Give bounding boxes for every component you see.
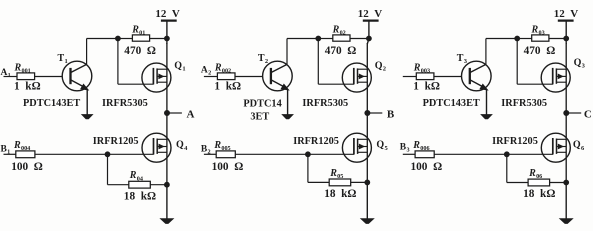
node B2 input terminal (201, 145, 211, 156)
label PDTC143ET part number (243, 99, 281, 123)
wire node A to drain of Q4 and source down (166, 113, 168, 185)
P-MOSFET Q3 (IRFR5305) (541, 63, 570, 92)
ground (source of Q4) (161, 185, 173, 224)
svg-text:T2: T2 (258, 53, 268, 65)
label 12 V (358, 8, 383, 20)
label Q6 (573, 140, 585, 152)
resistor R06 18 kOhm (528, 179, 550, 186)
svg-text:Q4: Q4 (176, 140, 188, 152)
junction node under 12 V supply (367, 36, 372, 41)
svg-text:T1: T1 (58, 53, 68, 65)
junction node at R03 left (515, 36, 520, 41)
wire R06 to source of Q6 (550, 182, 567, 184)
svg-text:IRFR1205: IRFR1205 (492, 136, 538, 147)
label R06 (528, 168, 542, 180)
svg-text:470 Ω: 470 Ω (524, 45, 556, 57)
transistor T1 (PDTC143ET) (62, 61, 92, 91)
label Q3 (574, 58, 586, 70)
value 470 Ohm for R03 (524, 45, 556, 57)
resistor R03 470 Ohm (517, 35, 566, 41)
wire R04 to source of Q4 (150, 184, 167, 186)
svg-text:B: B (387, 108, 395, 120)
svg-text:A2: A2 (201, 66, 211, 77)
wire node B to drain of Q5 and source down (366, 113, 368, 182)
wire node A stub (167, 112, 182, 114)
wire R003 to base of T3 (434, 76, 462, 78)
wire node B stub (367, 112, 382, 114)
resistor R001 1 kOhm (17, 73, 35, 80)
svg-text:Q6: Q6 (573, 140, 585, 152)
value 100 Ohm for R004 (11, 161, 43, 173)
svg-text:IRFR5305: IRFR5305 (501, 98, 547, 109)
svg-text:12 V: 12 V (358, 8, 383, 20)
wire drain of Q1 to node A (166, 39, 168, 114)
junction node source of Q5 (365, 180, 370, 185)
svg-text:Q1: Q1 (174, 60, 185, 72)
label R006 (412, 140, 429, 152)
svg-text:R01: R01 (131, 24, 145, 36)
N-MOSFET Q4 (IRFR1205) (142, 133, 171, 162)
junction node A (165, 111, 170, 116)
label T1 (58, 53, 68, 65)
svg-text:IRFR5305: IRFR5305 (102, 98, 148, 109)
label IRFR1205 part number (93, 136, 139, 147)
svg-text:470 Ω: 470 Ω (124, 45, 156, 57)
junction node source of Q4 (165, 182, 170, 187)
svg-text:100 Ω: 100 Ω (411, 161, 443, 173)
junction node C (564, 111, 569, 116)
value 18 kOhm for R06 (523, 188, 555, 200)
label 12 V (554, 8, 579, 20)
wire R002 to base of T2 (235, 76, 263, 78)
value 470 Ohm for R02 (325, 45, 357, 57)
svg-text:C: C (584, 108, 592, 120)
svg-text:R005: R005 (213, 140, 230, 152)
wire R004 to gate of Q4 (35, 153, 154, 155)
label node C (584, 108, 592, 120)
ground (emitter of T3) (481, 90, 491, 119)
label IRFR1205 part number (492, 136, 538, 147)
wire collector of T2 up to top node (287, 39, 318, 65)
resistor R005 100 Ohm (216, 151, 235, 158)
label PDTC143ET part number (23, 98, 80, 109)
svg-text:R06: R06 (528, 168, 542, 180)
svg-text:R03: R03 (531, 24, 545, 36)
wire input B2 to R005 (204, 153, 216, 155)
node B1 input terminal (1, 145, 11, 156)
junction node under 12 V supply (165, 36, 170, 41)
junction node under 12 V supply (564, 36, 569, 41)
label 12 V (155, 8, 180, 20)
wire collector of T3 up to top node (486, 39, 517, 65)
wire R006 to gate of Q6 (434, 153, 553, 155)
svg-text:A: A (187, 108, 195, 120)
resistor R01 470 Ohm (118, 35, 167, 41)
svg-text:R02: R02 (332, 24, 346, 36)
supply 12 V terminal (363, 21, 379, 39)
label R002 (214, 62, 231, 74)
value 18 kOhm for R04 (124, 190, 156, 202)
svg-text:R04: R04 (129, 170, 143, 182)
svg-text:IRFR1205: IRFR1205 (93, 136, 139, 147)
ground (emitter of T2) (282, 90, 292, 119)
junction node source of Q6 (564, 180, 569, 185)
svg-text:IRFR1205: IRFR1205 (293, 136, 339, 147)
junction node at R02 left (316, 36, 321, 41)
svg-text:B3: B3 (400, 143, 410, 154)
label R005 (213, 140, 230, 152)
wire gate junction down to R05 (308, 154, 329, 182)
wire input B1 to R004 (4, 153, 16, 155)
svg-text:R003: R003 (413, 62, 430, 74)
value 1 kOhm for R002 (214, 80, 241, 92)
resistor R003 1 kOhm (416, 73, 434, 80)
svg-text:PDTC143ET: PDTC143ET (423, 98, 480, 109)
svg-text:1 kΩ: 1 kΩ (413, 80, 440, 92)
svg-text:18 kΩ: 18 kΩ (324, 188, 356, 200)
value 1 kOhm for R001 (14, 80, 41, 92)
wire input B3 to R006 (403, 153, 415, 155)
resistor R05 18 kOhm (329, 179, 351, 186)
label R001 (14, 62, 31, 74)
wire R001 to base of T1 (35, 76, 63, 78)
wire drain of Q2 to node B (367, 39, 369, 114)
svg-text:R001: R001 (14, 62, 31, 74)
label R05 (329, 168, 343, 180)
resistor R002 1 kOhm (217, 73, 235, 80)
svg-text:18 kΩ: 18 kΩ (124, 190, 156, 202)
junction node gate of Q4 (105, 152, 110, 157)
junction node gate of Q6 (504, 152, 509, 157)
wire R05 to source of Q5 (351, 181, 368, 183)
transistor T3 (PDTC143ET) (462, 61, 492, 91)
label R004 (13, 140, 30, 152)
wire junction down to gate of Q1 (118, 39, 154, 85)
label R003 (413, 62, 430, 74)
wire junction down to gate of Q3 (517, 39, 553, 85)
svg-text:100 Ω: 100 Ω (11, 161, 43, 173)
label PDTC143ET part number (423, 98, 480, 109)
svg-text:PDTC14: PDTC14 (243, 99, 281, 110)
junction node at R01 left (116, 36, 121, 41)
P-MOSFET Q1 (IRFR5305) (142, 63, 171, 92)
wire R005 to gate of Q5 (235, 153, 354, 155)
ground (source of Q5) (361, 182, 373, 223)
label R01 (131, 24, 145, 36)
svg-text:100 Ω: 100 Ω (212, 161, 244, 173)
svg-text:18 kΩ: 18 kΩ (523, 188, 555, 200)
wire collector of T1 up to top node (87, 39, 118, 65)
svg-text:IRFR5305: IRFR5305 (302, 98, 348, 109)
ground (source of Q6) (560, 183, 572, 224)
value 100 Ohm for R006 (411, 161, 443, 173)
label Q1 (174, 60, 185, 72)
label Q2 (375, 60, 386, 72)
value 18 kOhm for R05 (324, 188, 356, 200)
ground (emitter of T1) (82, 90, 92, 119)
svg-text:T3: T3 (457, 53, 468, 65)
junction node B (365, 111, 370, 116)
wire input A3 to R003 (403, 76, 417, 78)
transistor T2 (PDTC143ET) (263, 61, 293, 91)
wire gate junction down to R04 (108, 154, 129, 184)
label node B (387, 108, 395, 120)
svg-text:R05: R05 (329, 168, 343, 180)
N-MOSFET Q5 (IRFR1205) (342, 133, 371, 162)
label IRFR1205 part number (293, 136, 339, 147)
label IRFR5305 part number (302, 98, 348, 109)
label Q5 (376, 140, 388, 152)
node A2 input terminal (201, 66, 211, 77)
svg-text:470 Ω: 470 Ω (325, 45, 357, 57)
supply 12 V terminal (558, 21, 574, 39)
node A1 input terminal (1, 68, 11, 79)
node B3 input terminal (400, 143, 410, 154)
svg-text:A1: A1 (1, 68, 11, 79)
label T3 (457, 53, 468, 65)
resistor R04 18 kOhm (129, 181, 151, 188)
label node A (187, 108, 195, 120)
resistor R006 100 Ohm (415, 151, 434, 158)
resistor R004 100 Ohm (16, 151, 35, 158)
supply 12 V terminal (161, 21, 177, 39)
svg-text:Q5: Q5 (376, 140, 388, 152)
label R02 (332, 24, 346, 36)
wire drain of Q3 to node C (565, 39, 567, 114)
svg-text:3ET: 3ET (250, 112, 269, 123)
wire gate junction down to R06 (507, 154, 528, 182)
svg-text:Q2: Q2 (375, 60, 386, 72)
value 1 kOhm for R003 (413, 80, 440, 92)
label IRFR5305 part number (501, 98, 547, 109)
label R04 (129, 170, 143, 182)
svg-text:Q3: Q3 (574, 58, 586, 70)
svg-text:12 V: 12 V (155, 8, 180, 20)
wire node C to drain of Q6 and source down (565, 113, 567, 183)
label R03 (531, 24, 545, 36)
label Q4 (176, 140, 188, 152)
wire input A2 to R002 (204, 76, 218, 78)
junction node gate of Q5 (306, 152, 311, 157)
svg-text:R004: R004 (13, 140, 30, 152)
value 100 Ohm for R005 (212, 161, 244, 173)
svg-text:PDTC143ET: PDTC143ET (23, 98, 80, 109)
wire input A1 to R001 (4, 76, 18, 78)
value 470 Ohm for R01 (124, 45, 156, 57)
svg-text:1 kΩ: 1 kΩ (14, 80, 41, 92)
resistor R02 470 Ohm (318, 35, 369, 41)
P-MOSFET Q2 (IRFR5305) (342, 63, 371, 92)
svg-text:R002: R002 (214, 62, 231, 74)
svg-text:1 kΩ: 1 kΩ (214, 80, 241, 92)
label T2 (258, 53, 268, 65)
wire node C stub (566, 112, 581, 114)
svg-text:12 V: 12 V (554, 8, 579, 20)
wire junction down to gate of Q2 (318, 39, 354, 85)
label IRFR5305 part number (102, 98, 148, 109)
N-MOSFET Q6 (IRFR1205) (541, 133, 570, 162)
svg-text:R006: R006 (412, 140, 429, 152)
